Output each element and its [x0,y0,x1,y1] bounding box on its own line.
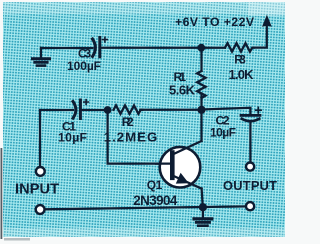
svg-text:1.0K: 1.0K [229,67,255,82]
svg-text:+6V TO +22V: +6V TO +22V [175,15,255,29]
svg-text:R3: R3 [234,53,246,67]
resistor R2 [114,105,143,113]
ground (top left) [33,48,50,66]
wire base drop [108,110,161,164]
svg-text:R2: R2 [122,115,134,129]
svg-text:1.2MEG: 1.2MEG [104,129,158,144]
wire bottom rail [45,206,246,209]
node V+ junction [197,44,205,52]
node collector junction [197,106,205,114]
wire ground to C3 [41,47,93,49]
wire left rail (input to base line) [39,110,41,167]
wire to C1 [40,109,73,111]
wire R2 to collector node [140,109,198,111]
transistor Q1 [156,141,202,189]
terminal INPUT bottom [36,205,45,214]
supply arrow (+6V to +22V) [262,15,272,27]
svg-text:10µF: 10µF [58,131,87,145]
svg-text:5.6K: 5.6K [169,83,196,98]
wire collector up to node [200,110,202,141]
resistor R3 [225,43,254,51]
resistor R1 [197,48,206,110]
svg-text:OUTPUT: OUTPUT [223,178,277,193]
svg-text:2N3904: 2N3904 [133,193,178,208]
capacitor C3 [93,37,108,57]
wire emitter down to ground node [202,188,203,207]
svg-text:Q1: Q1 [147,178,163,192]
svg-text:INPUT: INPUT [15,182,59,198]
wire R3 to supply arrow [254,26,267,48]
svg-text:100µF: 100µF [67,59,101,73]
terminal INPUT top [36,167,45,176]
svg-text:10µF: 10µF [210,125,236,139]
terminal OUTPUT top [246,163,254,171]
wire collector node to C2 [202,108,251,114]
wire C2 to output terminal [249,123,251,163]
wire C1 to base node [82,109,104,111]
node base junction [104,106,112,114]
terminal OUTPUT bottom [246,202,254,210]
wire C3 to R3 (V+ rail) [101,47,225,49]
capacitor C1 [73,100,88,119]
capacitor C2 [241,107,261,121]
ground (bottom) [194,207,212,226]
node emitter/ground junction [199,203,207,211]
